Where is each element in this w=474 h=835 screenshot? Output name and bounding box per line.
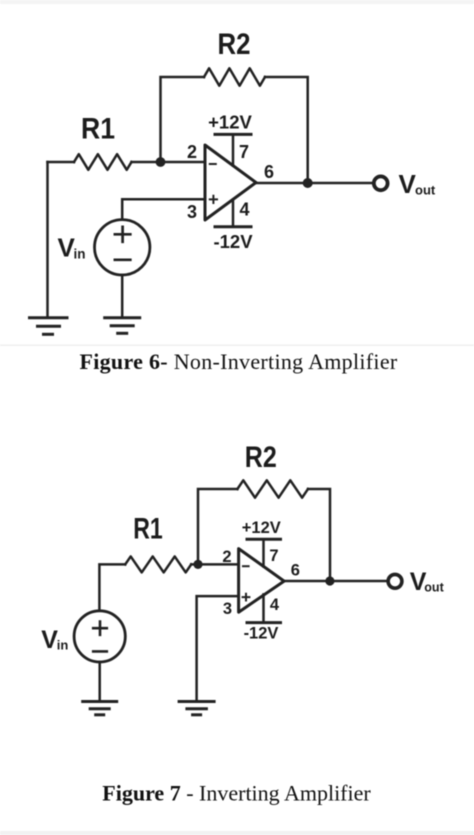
ground input (fig6) bbox=[30, 318, 68, 335]
wire: source to ground (fig6) bbox=[121, 275, 124, 316]
svg-text:Vin: Vin bbox=[58, 233, 86, 263]
svg-text:R2: R2 bbox=[218, 28, 251, 61]
svg-text:7: 7 bbox=[239, 142, 249, 162]
ground source (fig6) bbox=[105, 318, 140, 334]
svg-text:+12V: +12V bbox=[208, 112, 252, 133]
svg-text:R1: R1 bbox=[81, 113, 115, 146]
svg-text:3: 3 bbox=[223, 600, 232, 618]
junction node feedback/output (fig6) bbox=[303, 178, 313, 188]
wire: R1 to inverting input (fig7) bbox=[191, 563, 238, 566]
wire: feedback left leg (fig6) bbox=[161, 77, 205, 162]
junction node feedback/output (fig7) bbox=[325, 576, 334, 585]
svg-text:6: 6 bbox=[291, 562, 300, 580]
wire: V- stub pin4 (fig7) bbox=[262, 594, 265, 622]
V+ rail bar (fig6) bbox=[215, 133, 251, 136]
resistor R1 (fig6) bbox=[74, 154, 132, 170]
junction node R1/R2 (fig6) bbox=[156, 157, 166, 167]
separator hairline bbox=[0, 345, 474, 346]
junction node R1/R2 (fig7) bbox=[193, 560, 202, 569]
op-amp U2 (fig7) bbox=[239, 549, 285, 613]
wire: output (fig6) bbox=[256, 182, 373, 185]
terminal Vout (fig7) bbox=[388, 574, 402, 588]
wire: source up to R1 (fig7) bbox=[99, 564, 125, 610]
wire: V- stub pin4 (fig6) bbox=[232, 200, 235, 227]
op-amp U2 plus sign bbox=[243, 594, 250, 601]
V- rail bar (fig7) bbox=[247, 621, 281, 624]
page bottom edge strip bbox=[0, 831, 474, 835]
source Vin circle (fig6) bbox=[95, 220, 150, 275]
svg-text:Figure 6- Non-Inverting Amplif: Figure 6- Non-Inverting Amplifier bbox=[79, 349, 397, 374]
source plus sign (fig7) bbox=[93, 622, 107, 635]
source minus sign (fig7) bbox=[93, 650, 107, 653]
op-amp U1 (fig6) bbox=[205, 145, 256, 220]
svg-text:-12V: -12V bbox=[213, 231, 253, 252]
wire: left drop to ground (fig6) bbox=[46, 162, 49, 316]
op-amp U1 minus sign bbox=[210, 163, 216, 165]
wire: R1 to inverting input (fig6) bbox=[132, 161, 206, 164]
svg-text:Figure 7 - Inverting Amplifier: Figure 7 - Inverting Amplifier bbox=[102, 781, 371, 806]
resistor R2 (fig6) bbox=[204, 68, 265, 85]
wire: feedback right leg (fig7) bbox=[308, 489, 330, 581]
svg-text:-12V: -12V bbox=[244, 625, 279, 643]
svg-text:4: 4 bbox=[239, 200, 249, 220]
svg-text:+12V: +12V bbox=[242, 519, 281, 537]
page top edge strip bbox=[0, 0, 474, 4]
wire: V+ stub pin7 (fig6) bbox=[232, 135, 235, 166]
svg-text:Vout: Vout bbox=[399, 169, 436, 199]
ground non-inverting (fig7) bbox=[179, 702, 214, 715]
svg-text:Vin: Vin bbox=[41, 626, 68, 654]
wire: non-inverting input to ground (fig7) bbox=[197, 596, 239, 700]
wire: source to non-inverting input (fig6) bbox=[122, 199, 205, 219]
source Vin circle (fig7) bbox=[74, 611, 125, 662]
svg-text:4: 4 bbox=[270, 596, 280, 614]
source plus sign (fig6) bbox=[115, 227, 130, 242]
V- rail bar (fig6) bbox=[215, 225, 251, 228]
wire: output (fig7) bbox=[284, 580, 388, 583]
svg-text:3: 3 bbox=[187, 202, 197, 222]
svg-text:7: 7 bbox=[269, 547, 278, 565]
svg-text:6: 6 bbox=[264, 162, 274, 182]
source minus sign (fig6) bbox=[115, 258, 130, 261]
svg-text:Vout: Vout bbox=[410, 568, 445, 596]
wire: V+ stub pin7 (fig7) bbox=[262, 540, 265, 566]
resistor R2 (fig7) bbox=[237, 480, 308, 497]
svg-text:R2: R2 bbox=[245, 441, 277, 474]
op-amp U2 minus sign bbox=[243, 565, 249, 567]
svg-text:2: 2 bbox=[187, 142, 197, 162]
resistor R1 (fig7) bbox=[125, 556, 191, 572]
V+ rail bar (fig7) bbox=[247, 538, 281, 541]
wire: feedback right leg (fig6) bbox=[265, 77, 308, 183]
op-amp U1 plus sign bbox=[210, 196, 217, 203]
ground source (fig7) bbox=[83, 702, 117, 715]
terminal Vout (fig6) bbox=[374, 176, 388, 190]
wire: source to ground (fig7) bbox=[98, 662, 101, 700]
wire: input lead into R1 (fig6) bbox=[48, 161, 75, 164]
wire: feedback left leg (fig7) bbox=[198, 489, 237, 564]
svg-text:2: 2 bbox=[222, 548, 231, 566]
svg-text:R1: R1 bbox=[133, 513, 163, 546]
